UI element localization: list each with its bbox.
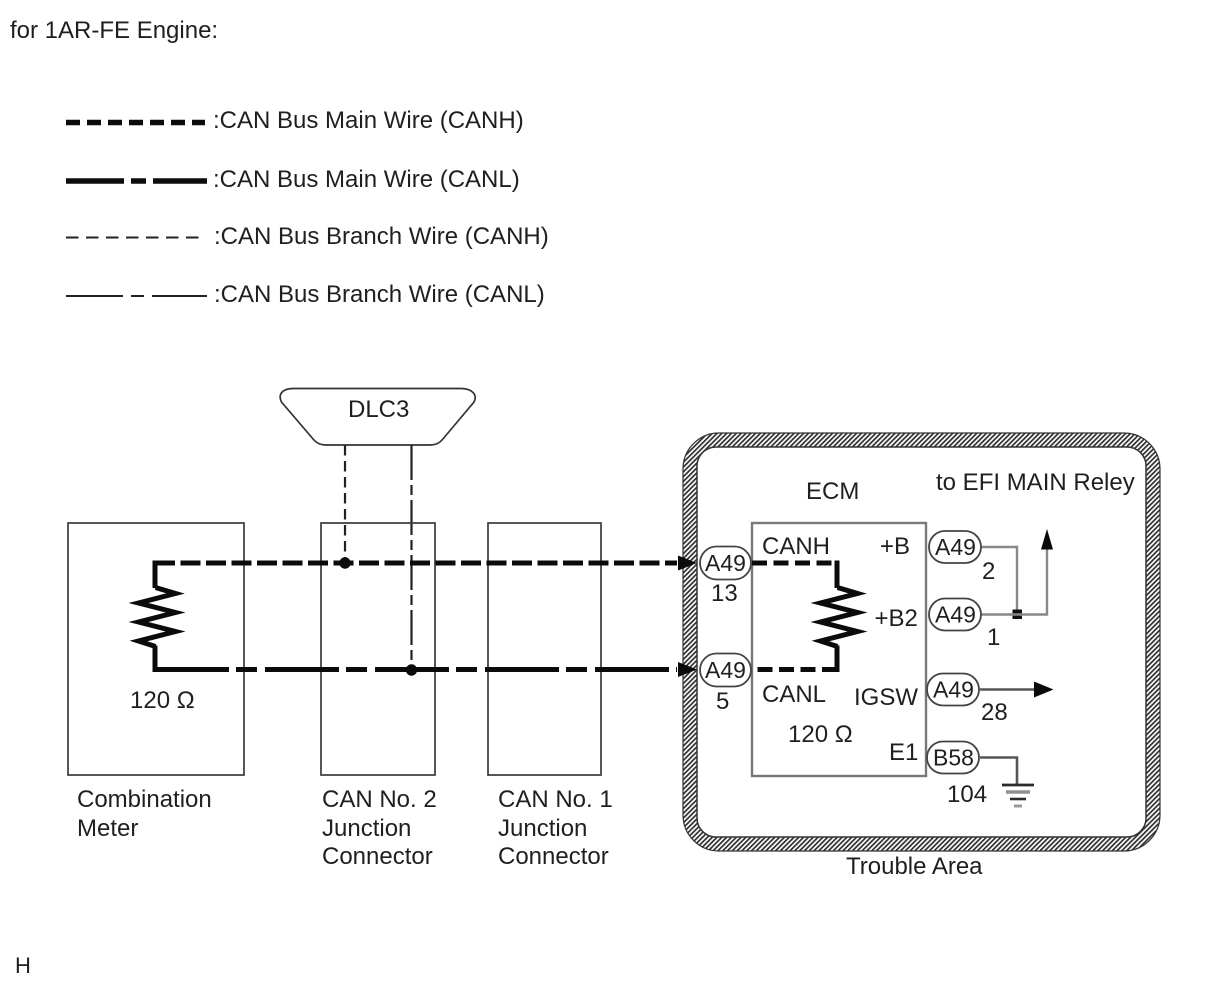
wire: +B to junction: [981, 547, 1017, 614]
wire: DLC3 branch CANH (dashed): [344, 445, 346, 563]
connector oval A49 pin 5: [700, 654, 751, 687]
svg-text::CAN Bus Main Wire (CANH): :CAN Bus Main Wire (CANH): [213, 107, 524, 134]
box: CAN No. 2 Junction Connector: [321, 523, 435, 775]
svg-text:Junction: Junction: [322, 815, 411, 842]
legend line: CAN Bus Branch Wire (CANL): [66, 295, 207, 297]
svg-text:A49: A49: [935, 534, 976, 560]
wire: DLC3 branch CANL (dash-dot): [410, 445, 412, 670]
svg-text:120 Ω: 120 Ω: [130, 687, 195, 714]
box: ECM: [752, 523, 926, 776]
wire: CANH bus main (bold dashed): [155, 561, 677, 566]
svg-text:CAN No. 1: CAN No. 1: [498, 786, 613, 813]
svg-text:A49: A49: [935, 602, 976, 628]
svg-text::CAN Bus Main Wire (CANL): :CAN Bus Main Wire (CANL): [213, 166, 520, 193]
junction dot CANH / DLC3 branch: [339, 557, 350, 568]
svg-text:to EFI MAIN Reley: to EFI MAIN Reley: [936, 469, 1135, 496]
connector oval A49 pin 1: [929, 599, 981, 631]
svg-text::CAN Bus Branch Wire (CANL): :CAN Bus Branch Wire (CANL): [214, 281, 545, 308]
connector oval A49 pin 28: [927, 674, 979, 706]
legend line: CAN Bus Main Wire (CANL): [66, 178, 207, 184]
svg-text::CAN Bus Branch Wire (CANH): :CAN Bus Branch Wire (CANH): [214, 223, 549, 250]
svg-text:120 Ω: 120 Ω: [788, 721, 853, 748]
svg-text:ECM: ECM: [806, 478, 859, 505]
resistor lead bottom (Combination Meter): [153, 646, 158, 673]
connector oval A49 pin 2: [929, 531, 981, 563]
svg-text:5: 5: [716, 688, 729, 715]
svg-text:CANH: CANH: [762, 533, 830, 560]
svg-text:1: 1: [987, 624, 1000, 651]
svg-text:Connector: Connector: [322, 843, 433, 870]
trouble area hatched border: [683, 433, 1160, 851]
svg-text:B58: B58: [933, 745, 974, 771]
svg-text:IGSW: IGSW: [854, 684, 918, 711]
svg-text:DLC3: DLC3: [348, 396, 409, 423]
svg-text:A49: A49: [933, 677, 974, 703]
svg-text:Meter: Meter: [77, 815, 138, 842]
svg-text:Junction: Junction: [498, 815, 587, 842]
svg-text:104: 104: [947, 781, 987, 808]
wire: CANH inside ECM (dashed): [752, 561, 837, 566]
box: Combination Meter: [68, 523, 244, 775]
svg-text:CAN No. 2: CAN No. 2: [322, 786, 437, 813]
svg-text:H: H: [15, 953, 31, 978]
svg-text:E1: E1: [889, 739, 918, 766]
svg-text:CANL: CANL: [762, 681, 826, 708]
wire: CANL inside ECM (dashed): [752, 667, 837, 672]
resistor lead top (Combination Meter): [153, 561, 158, 589]
connector oval B58 pin 104: [927, 742, 979, 774]
svg-text:Trouble Area: Trouble Area: [846, 853, 983, 880]
wire: CANL bus main (bold long-short): [155, 667, 677, 672]
wire: E1 to ground: [980, 758, 1017, 785]
resistor lead bottom (ECM): [835, 646, 840, 673]
svg-text:A49: A49: [705, 550, 746, 576]
svg-text:2: 2: [982, 558, 995, 585]
junction dot +B/+B2: [1013, 610, 1023, 620]
svg-text:Connector: Connector: [498, 843, 609, 870]
svg-text:28: 28: [981, 699, 1008, 726]
legend line: CAN Bus Main Wire (CANH): [66, 120, 205, 126]
box: CAN No. 1 Junction Connector: [488, 523, 601, 775]
arrow IGSW right: [1034, 682, 1054, 698]
connector oval A49 pin 13: [700, 547, 751, 580]
svg-text:+B: +B: [880, 533, 910, 560]
trouble area inner white: [697, 447, 1146, 837]
resistor R 120 ohm Combination Meter: [139, 588, 176, 647]
arrow CANH into trouble area: [678, 556, 697, 571]
svg-text:Combination: Combination: [77, 786, 212, 813]
arrow up to EFI MAIN relay: [1041, 529, 1053, 550]
svg-text:A49: A49: [705, 657, 746, 683]
arrow CANL into trouble area: [678, 662, 697, 677]
connector DLC3 outline: [280, 389, 475, 446]
legend line: CAN Bus Branch Wire (CANH): [66, 237, 202, 239]
svg-text:for 1AR-FE Engine:: for 1AR-FE Engine:: [10, 17, 218, 44]
ground symbol: [1002, 785, 1034, 806]
wire: +B2 to EFI main relay: [981, 549, 1047, 615]
svg-text:+B2: +B2: [875, 605, 918, 632]
resistor R 120 ohm ECM: [821, 588, 858, 647]
junction dot CANL / DLC3 branch: [406, 664, 417, 675]
resistor lead top (ECM): [835, 561, 840, 589]
wire: IGSW output: [980, 688, 1035, 690]
svg-text:13: 13: [711, 580, 738, 607]
